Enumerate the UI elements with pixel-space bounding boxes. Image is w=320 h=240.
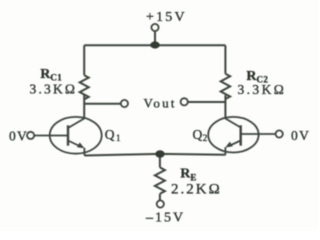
wire right branch lower xyxy=(224,95,226,119)
svg-text:RC1: RC1 xyxy=(40,67,62,83)
wire vout tap right xyxy=(188,101,226,103)
svg-text:–15V: –15V xyxy=(145,211,185,226)
resistor RC1 xyxy=(80,75,89,99)
svg-text:Q1: Q1 xyxy=(105,127,121,143)
svg-text:2.2KΩ: 2.2KΩ xyxy=(171,181,222,197)
resistor RE label xyxy=(171,167,222,198)
wire left branch lower xyxy=(83,95,85,119)
wire top rail xyxy=(84,44,225,46)
svg-text:RE: RE xyxy=(180,167,196,183)
power terminal -15V xyxy=(145,200,185,225)
transistor Q2 xyxy=(208,117,258,155)
wire bottom rail xyxy=(84,154,225,156)
svg-text:Vout: Vout xyxy=(144,96,177,111)
node Vout xyxy=(121,96,188,111)
svg-text:Q2: Q2 xyxy=(193,127,208,143)
svg-text:0V: 0V xyxy=(291,128,310,143)
svg-text:0V: 0V xyxy=(9,129,28,144)
resistor RE xyxy=(155,167,165,193)
wire right branch upper xyxy=(224,45,226,74)
wire vout tap left xyxy=(84,103,121,105)
svg-text:+15V: +15V xyxy=(146,10,187,25)
wire base Q2 xyxy=(241,133,276,135)
resistor RC2 xyxy=(221,74,230,99)
transistor Q1 xyxy=(50,117,102,156)
wire RE bottom xyxy=(159,194,161,201)
resistor RC2 label xyxy=(238,69,287,97)
wire left branch upper xyxy=(83,45,85,75)
junction dot bottom xyxy=(155,150,164,157)
wire +15V stub xyxy=(154,31,156,42)
input terminal 0V right xyxy=(241,128,311,143)
svg-text:3.3KΩ: 3.3KΩ xyxy=(30,81,78,96)
input terminal 0V left xyxy=(9,129,68,144)
wire base Q1 xyxy=(34,135,68,137)
junction dot top xyxy=(150,41,160,48)
wire RE top xyxy=(159,154,161,168)
resistor RC1 label xyxy=(30,67,78,97)
power terminal +15V xyxy=(146,10,187,31)
svg-text:3.3KΩ: 3.3KΩ xyxy=(238,82,287,97)
